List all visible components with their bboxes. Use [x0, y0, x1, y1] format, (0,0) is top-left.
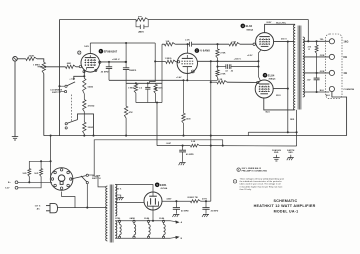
vertical feed x155 down to network — [154, 43, 156, 61]
svg-text:*: * — [235, 181, 236, 183]
heater rail upper 6.3V — [115, 220, 170, 222]
terminal circle upper — [15, 181, 18, 184]
tube V2 6AN8 envelope — [177, 53, 197, 73]
resistor R14 1500 ohm — [182, 113, 185, 123]
wire R19 to main riser — [200, 145, 211, 147]
wire: screen feed line above V1 — [90, 42, 155, 44]
resistor R11 on B plus line — [165, 43, 176, 46]
svg-text:1 MEG: 1 MEG — [33, 64, 40, 66]
svg-text:/6CA4: /6CA4 — [161, 187, 168, 190]
input jack J1 — [13, 57, 18, 62]
resistor R4 cathode upper — [83, 76, 85, 78]
label V2 designation 6AN8 — [195, 48, 200, 53]
wire R14 to ground bus — [183, 123, 185, 135]
tube V3 EL84 upper envelope — [256, 33, 274, 51]
svg-text:6: 6 — [192, 72, 193, 74]
T1 secondary tap 4 ohm — [303, 72, 329, 74]
svg-text:220K: 220K — [29, 56, 35, 58]
svg-text:MODEL UA-1: MODEL UA-1 — [274, 209, 299, 213]
svg-text:BLK: BLK — [326, 95, 331, 97]
power socket P1 octal outline — [50, 168, 73, 191]
wire: primary bottom return — [62, 241, 108, 246]
wire: primary to AC line connections — [94, 176, 106, 187]
svg-text:2000Ω 7W: 2000Ω 7W — [187, 197, 197, 199]
terminal circle lower — [15, 186, 18, 189]
svg-text:40 MFD: 40 MFD — [186, 153, 194, 156]
on-off switch SW2 — [86, 174, 88, 176]
V2 pin marker — [191, 70, 194, 73]
terminal 8 ohm — [329, 54, 334, 59]
heater loop V3 — [148, 222, 150, 224]
label V1 designation EF86/6267 — [99, 49, 104, 54]
wire: V1 cathode to junction — [83, 71, 85, 77]
V4 internal electrodes — [259, 83, 269, 85]
resistor R21 heater CT — [40, 161, 42, 168]
svg-text:B+: B+ — [8, 182, 11, 184]
wire R8 to ground bus — [125, 118, 127, 136]
resistor R15 270K upper splitter load — [217, 44, 219, 49]
resistor R12 grid stopper V3 1.5K — [229, 43, 240, 46]
svg-text:117 V.: 117 V. — [35, 206, 42, 208]
svg-text:1 MEG: 1 MEG — [128, 88, 135, 90]
wire: switch contacts to feedback vertical — [60, 85, 65, 87]
svg-text:560Ω: 560Ω — [88, 86, 94, 88]
svg-text:56Ω: 56Ω — [34, 173, 38, 175]
svg-text:PRE-AMP IS CONNECTED: PRE-AMP IS CONNECTED — [242, 169, 268, 172]
wire: V5 cathode output 340V — [162, 200, 191, 202]
ground below C11 — [203, 213, 209, 215]
wire: V2 grid resistor R13 — [155, 60, 166, 62]
svg-text:.05 MFD: .05 MFD — [100, 72, 109, 74]
svg-text:GND.: GND. — [288, 152, 294, 154]
wire: x217 down to coupling line — [217, 61, 219, 66]
svg-text:1500: 1500 — [186, 118, 192, 120]
power transformer T2 primary winding — [106, 186, 108, 241]
label V4 designation EL84 — [263, 73, 268, 78]
filter cap C11 20MFD — [205, 201, 207, 207]
V1 top stub to screen feed — [89, 43, 91, 54]
rectifier tube V5 EZ81 envelope — [144, 192, 162, 210]
AC plug P2 — [50, 204, 58, 213]
svg-text:5: 5 — [238, 170, 239, 172]
wire: lower switch to bus tap — [78, 114, 94, 136]
svg-text:10K: 10K — [166, 41, 170, 43]
wire: V3 plate to transformer top — [265, 24, 295, 32]
ground bus horizontal — [44, 135, 347, 137]
wire R18 down through taps — [316, 53, 318, 78]
svg-text:1 MEG: 1 MEG — [165, 58, 172, 60]
resistor R1 input 1M — [26, 57, 37, 60]
wire: R1 to volume pot — [37, 59, 44, 63]
wire: V5 heater bottom stub — [152, 210, 154, 221]
wire: common terminal to ground bus — [332, 92, 347, 136]
wire: V3 screen line to transformer — [274, 41, 295, 43]
wire: socket right pin to on-off switch — [71, 176, 86, 179]
V2 cathode stub to tone line — [186, 67, 188, 81]
wire: R3 to V1 grid pin — [76, 66, 79, 68]
V2 plate stub to B plus line — [187, 44, 189, 53]
T1 core lines — [297, 26, 299, 110]
svg-text:it should be higher than 10 p: it should be higher than 10 per W by not… — [240, 185, 283, 188]
ground symbol below jack — [12, 136, 18, 138]
svg-text:½ 6AN8: ½ 6AN8 — [200, 49, 211, 53]
wire: preamp power terminal lower — [18, 177, 41, 188]
wire: V2 cathode chain down — [183, 80, 185, 113]
loudness switch SW1 upper contacts — [65, 85, 67, 87]
svg-text:EZ81: EZ81 — [160, 183, 167, 187]
feedback divider resistor R18 — [316, 41, 318, 45]
wire: input jack to grid resistor — [17, 58, 26, 60]
filter cap C10 40MFD — [175, 201, 177, 207]
filter cap C9 40MFD on sub line — [182, 146, 184, 151]
wire: riser up to transformer center bottom — [296, 110, 298, 146]
wire: cathode junction left to switch arm — [74, 76, 85, 80]
heater loop V2 — [133, 222, 135, 224]
svg-text:20 MFD: 20 MFD — [211, 211, 219, 213]
wire: switch to heater feed riser — [89, 174, 95, 176]
wire: V4 plate down and right to transformer bottom — [264, 98, 294, 110]
feedback line top horizontal — [60, 19, 137, 21]
svg-text:/6BQ5: /6BQ5 — [269, 79, 277, 81]
wire: vertical from feed line through plate line to C3 — [125, 43, 127, 68]
heater loop V4 — [163, 222, 165, 224]
svg-text:EF86: EF86 — [115, 218, 120, 220]
svg-text:+265 V.: +265 V. — [112, 59, 120, 61]
svg-text:16Ω: 16Ω — [343, 40, 348, 43]
svg-text:Ω: Ω — [308, 49, 310, 51]
dashed gang link of switch — [71, 95, 73, 122]
svg-text:HEATHKIT 12 WATT AMPLIFIER: HEATHKIT 12 WATT AMPLIFIER — [254, 204, 316, 208]
svg-text:220Ω: 220Ω — [88, 127, 94, 129]
V1 pin circle grid side — [78, 51, 81, 54]
T2 HV bottom lead to rectifier — [115, 201, 144, 203]
wire: preamp power terminal upper — [18, 181, 52, 183]
resistor R19 5600 ohm dropping — [190, 144, 199, 147]
V1 internal electrodes — [85, 57, 96, 59]
wire: V1 plate line — [100, 61, 126, 63]
svg-text:120K: 120K — [158, 88, 163, 90]
wire: B plus top line of 6AN8 stage — [162, 43, 165, 45]
heater rail lower — [115, 237, 170, 239]
svg-text:2.2: 2.2 — [139, 88, 142, 90]
svg-text:RED: RED — [290, 119, 295, 121]
svg-text:+140 V.: +140 V. — [234, 57, 242, 60]
svg-text:350 V.: 350 V. — [116, 189, 122, 191]
svg-text:EF86/6267: EF86/6267 — [104, 49, 118, 53]
T2 HV secondary winding — [115, 185, 117, 217]
svg-text:6.3V: 6.3V — [5, 188, 10, 190]
V2 internal electrodes — [182, 57, 193, 59]
resistor R20 heater CT — [28, 161, 30, 168]
V3 internal electrodes — [259, 36, 269, 38]
B plus sub line left segment — [157, 145, 190, 147]
P1 center keyway — [58, 175, 65, 182]
wire: cathode line to R16 bottom — [184, 79, 218, 81]
T1 secondary winding — [303, 37, 305, 97]
wire: splitter output line from V2 plate — [198, 60, 259, 62]
wire R4 to R5 — [83, 94, 85, 100]
resistor R8 47K to bus — [124, 106, 127, 118]
svg-text:68K: 68K — [67, 63, 72, 65]
svg-text:+255V: +255V — [138, 32, 145, 34]
feedback cap C2 parallel branch — [136, 20, 140, 27]
ground below C10 — [173, 213, 179, 215]
feedback takeoff vertical to top line — [307, 20, 309, 42]
T2 HV center tap ground — [115, 195, 121, 197]
wire: network bottom down to B plus sub line — [156, 103, 158, 146]
T1 secondary tap 16 ohm — [303, 40, 329, 42]
svg-text:ORN: ORN — [320, 55, 325, 57]
heater feed line from power socket — [94, 140, 223, 175]
svg-text:+1.6V: +1.6V — [69, 79, 75, 81]
wire R17 to V4 grid pin — [227, 81, 257, 83]
svg-text:4700Ω: 4700Ω — [88, 105, 95, 108]
svg-text:250 V.: 250 V. — [281, 38, 288, 40]
wire: V4 cathode stub up — [258, 77, 260, 81]
svg-text:.02: .02 — [225, 70, 228, 72]
wire: V3 cathode stub — [258, 50, 260, 76]
svg-text:265V: 265V — [266, 22, 272, 24]
wire: pot wiper to grid stopper — [45, 66, 65, 68]
svg-text:B: B — [181, 238, 183, 240]
tube V1 EF86 envelope — [81, 54, 100, 73]
resistor R16 270K lower splitter load — [217, 67, 219, 70]
B plus sub line right segment — [211, 145, 297, 147]
svg-text:.0047: .0047 — [166, 142, 171, 145]
label V5 designation EZ81 — [155, 183, 160, 188]
stub at left end of B plus rail — [247, 132, 249, 135]
wire: V4 grid line from splitter vertical — [211, 81, 217, 83]
capacitor C1 from plate line — [108, 62, 110, 67]
wire R13 to V2 grid — [176, 61, 178, 63]
pot wiper arrow — [38, 66, 42, 68]
terminal common — [329, 86, 334, 91]
T1 secondary common tap — [303, 91, 329, 93]
svg-text:EL84: EL84 — [159, 217, 165, 220]
P1 pin circles — [60, 169, 63, 172]
svg-text:SCHEMATIC: SCHEMATIC — [274, 199, 298, 203]
svg-text:the individual characteristic: the individual characteristics of the pa… — [240, 180, 282, 183]
wire: 270V node to riser — [201, 200, 211, 202]
resistor R9 1MEG in network — [134, 84, 137, 93]
wire: jack sleeve down — [14, 61, 16, 137]
wire R6 to ground bus — [83, 134, 85, 136]
svg-text:SWITCH: SWITCH — [92, 178, 101, 180]
svg-text:BLK: BLK — [320, 90, 325, 92]
svg-text:40 MFD: 40 MFD — [181, 210, 189, 213]
wire: line continues to grid stopper of V3 — [192, 43, 229, 45]
svg-text:than 20 only.: than 20 only. — [240, 188, 252, 191]
svg-text:BLU+YEL: BLU+YEL — [276, 23, 287, 25]
capacitor C5 series on line — [188, 42, 190, 47]
wire: pot bottom to ground bus — [43, 74, 45, 136]
svg-text:140V: 140V — [84, 45, 89, 48]
wire R5 to R6 — [83, 112, 85, 123]
svg-text:47K: 47K — [129, 111, 134, 114]
svg-text:2.2K: 2.2K — [185, 39, 190, 41]
svg-text:COMMON: COMMON — [343, 89, 354, 91]
potentiometer R2 volume 1MEG — [42, 62, 45, 73]
wire: switch down to AC line — [86, 184, 88, 208]
decoupling network top rail — [126, 82, 162, 84]
svg-text:GRN: GRN — [320, 71, 325, 73]
ground symbol below C9 — [180, 162, 186, 164]
T1 secondary tap 8 ohm — [303, 56, 329, 58]
wire: cathode line of V1 tone path — [109, 79, 184, 81]
svg-text:/6BQ5: /6BQ5 — [246, 29, 254, 31]
wire: R12 to V3 grid pin — [240, 43, 253, 45]
wire: V4 screen to screen bus — [273, 88, 288, 90]
note: speaker connection — [237, 168, 240, 171]
svg-text:6AN8: 6AN8 — [130, 217, 135, 220]
T2 core lines — [109, 185, 111, 243]
svg-text:+8.5V: +8.5V — [247, 55, 253, 57]
svg-text:1.5K: 1.5K — [218, 79, 223, 81]
T2 HV top lead to rectifier plate line — [115, 185, 153, 193]
wire: B plus line to splitter junction — [175, 43, 189, 45]
svg-text:5.6K: 5.6K — [191, 141, 196, 143]
svg-text:8Ω: 8Ω — [343, 56, 347, 59]
capacitor C3 coupling 20MFD — [123, 67, 129, 69]
svg-text:BLU: BLU — [266, 112, 271, 114]
wire: socket bottom to AC line — [62, 192, 75, 208]
svg-text:270K: 270K — [220, 73, 226, 75]
svg-text:56K: 56K — [138, 16, 143, 18]
resistor R5 cathode middle — [83, 100, 86, 112]
svg-text:20MFD: 20MFD — [129, 70, 137, 72]
resistor R17 grid stopper V4 — [217, 81, 227, 84]
speaker terminal strip dashed outline — [326, 34, 342, 99]
heater rail arrow lower — [171, 237, 177, 238]
wire: plug to transformer primary — [58, 207, 108, 209]
svg-text:4Ω: 4Ω — [343, 72, 347, 75]
tube V4 EL84 lower envelope — [255, 80, 273, 98]
capacitor C4 in network — [147, 83, 149, 87]
screen bus vertical — [287, 42, 289, 133]
label V3 designation EL84 — [241, 24, 246, 29]
svg-text:200 V. WHEN MA-12: 200 V. WHEN MA-12 — [242, 167, 262, 170]
feedback capacitor C8 — [314, 77, 320, 79]
output transformer T1 primary winding — [294, 25, 296, 110]
network right edge and B plus riser — [161, 44, 163, 102]
heater rail arrow upper — [171, 221, 177, 222]
svg-text:270K: 270K — [220, 53, 226, 55]
svg-text:AC: AC — [37, 208, 41, 211]
svg-text:2: 2 — [79, 53, 80, 55]
svg-text:EL84: EL84 — [144, 217, 150, 220]
svg-text:+3.4V: +3.4V — [176, 76, 182, 79]
svg-text:250V: 250V — [276, 95, 281, 97]
heater loop V1 — [119, 222, 121, 224]
svg-text:EL84: EL84 — [246, 24, 253, 28]
svg-text:EL84: EL84 — [268, 73, 275, 77]
vertical wire x210 splitter down to power rail — [210, 61, 212, 201]
svg-text:270V: 270V — [202, 198, 208, 200]
svg-text:1.5K: 1.5K — [232, 41, 237, 43]
note: voltage tolerance paragraph — [233, 180, 236, 183]
resistor R3 grid 68K — [66, 65, 76, 68]
V5 internal electrodes — [152, 192, 154, 196]
svg-text:tubes used in your circuit.: tubes used in your circuit. The voltage … — [240, 183, 281, 186]
network bottom rail — [136, 102, 162, 104]
svg-text:A: A — [181, 221, 183, 224]
svg-text:.02: .02 — [230, 70, 233, 72]
resistor R6 cathode lower — [83, 122, 86, 134]
svg-text:These voltages will vary widel: These voltages will vary widely dependin… — [240, 178, 285, 181]
terminal 4 ohm — [329, 70, 334, 75]
wire: ground bus down to socket left pin — [50, 136, 52, 178]
B plus mid rail to center tap — [248, 131, 296, 133]
resistor R22 2000 ohm 7W — [190, 200, 200, 203]
wire: x126 down to R8 — [125, 83, 127, 106]
wire: heater CT resistor row top rail — [29, 160, 50, 162]
svg-text:.047: .047 — [307, 79, 311, 82]
svg-text:GND.: GND. — [274, 152, 280, 154]
terminal 16 ohm — [329, 39, 334, 44]
coupling line with capacitors C6 C7 — [218, 66, 226, 68]
resistor R10 120K in network — [155, 83, 157, 84]
svg-text:YEL: YEL — [320, 39, 325, 41]
feedback resistor R7 56K — [136, 18, 148, 21]
svg-text:56Ω: 56Ω — [23, 173, 27, 175]
loudness switch lower contacts — [65, 123, 67, 125]
svg-text:340V: 340V — [166, 197, 172, 200]
feedback vertical wire at input stage — [59, 20, 61, 136]
T2 heater winding — [115, 221, 117, 238]
